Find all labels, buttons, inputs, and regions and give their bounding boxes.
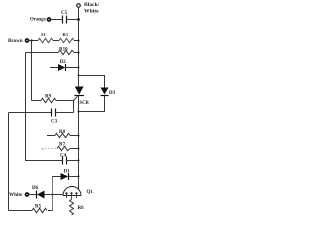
svg-text:R8: R8 — [59, 130, 66, 135]
wire D1 anode lead — [52, 176, 61, 178]
svg-text:R1: R1 — [63, 32, 69, 37]
wire brown to rail A junction — [29, 40, 38, 42]
wire orange to C5 — [51, 19, 63, 21]
svg-text:R6: R6 — [78, 206, 85, 211]
svg-text:S1: S1 — [41, 32, 47, 37]
pin 1 — [65, 192, 67, 194]
svg-text:Q1: Q1 — [87, 190, 94, 195]
wire R9 to gate node — [56, 100, 74, 102]
wire S1 to R1 — [53, 40, 59, 42]
svg-text:←: ← — [41, 146, 45, 151]
node junction D6/vertical — [52, 194, 54, 196]
wire R8 stub — [47, 135, 55, 137]
node Orange terminal — [48, 18, 51, 21]
node junction D2/rail — [78, 67, 80, 69]
svg-text:R5: R5 — [35, 205, 42, 210]
svg-text:R9: R9 — [45, 95, 52, 100]
svg-text:SCR: SCR — [80, 101, 90, 106]
resistor R6 vertical — [70, 200, 74, 216]
node Black/White terminal — [77, 4, 81, 8]
node junction D3 bottom/rail — [78, 111, 80, 113]
wire C4 to right rail — [67, 160, 79, 162]
diode D1 — [61, 173, 69, 180]
wire rail L vertical — [8, 113, 10, 211]
wire C4 row from rail B — [25, 160, 63, 162]
resistor R9 — [41, 98, 56, 102]
wire R10 to right rail — [74, 52, 79, 54]
wire R1 to right rail — [74, 40, 79, 42]
resistor R7 — [57, 146, 70, 150]
node junction R7/rail — [78, 148, 80, 150]
svg-text:D2: D2 — [60, 60, 67, 65]
node junction C5/rail — [77, 18, 80, 21]
wire node vertical x52 — [52, 177, 54, 211]
wire R10 row left — [26, 52, 59, 54]
node junction R10/rail — [78, 52, 80, 54]
wire D2 to right rail — [66, 67, 79, 69]
wire D6 to node vertical — [45, 194, 53, 196]
SCR thyristor — [75, 87, 84, 95]
wire R7 to right rail — [70, 148, 79, 150]
wire gate vertical — [73, 101, 75, 113]
svg-text:White: White — [84, 9, 99, 15]
pin 3 — [75, 192, 77, 194]
wire D3 branch bottom — [79, 96, 105, 112]
transistor Q1 package dome — [63, 187, 81, 196]
wire R9 corner from rail A — [32, 100, 42, 102]
wire D3 branch top — [79, 76, 105, 88]
wire C5 to right rail — [67, 19, 79, 21]
diode D6 — [36, 191, 38, 199]
diode D2 — [58, 64, 65, 71]
svg-text:C3: C3 — [51, 120, 58, 125]
wire rail A vertical — [31, 41, 33, 101]
svg-text:R7: R7 — [59, 143, 66, 148]
wire D6 node to transistor — [53, 194, 64, 196]
wire R5 row from rail L — [9, 210, 33, 212]
node junction brown/rail A — [30, 39, 32, 41]
node junction R8/rail — [78, 135, 80, 137]
resistor R10 — [58, 50, 74, 54]
wire D2 anode stub — [50, 67, 58, 69]
wire D1 to right rail — [69, 176, 79, 178]
pin 2 — [70, 192, 72, 194]
wire R5 to node vertical — [48, 210, 53, 212]
resistor R8 — [55, 133, 70, 137]
svg-text:D6: D6 — [32, 186, 39, 191]
resistor R5 — [32, 208, 47, 212]
svg-text:C4: C4 — [60, 153, 67, 158]
wire right rail upper (anode side) — [78, 8, 80, 87]
wire R8 to right rail — [70, 135, 79, 137]
wire rail B vertical — [25, 53, 27, 161]
node junction D3 top/rail — [78, 75, 80, 77]
node Brown terminal — [26, 39, 29, 42]
svg-text:Black/: Black/ — [84, 2, 100, 8]
resistor S1 — [38, 38, 53, 42]
node junction D1/rail — [78, 176, 80, 178]
wire right rail lower (cathode side) — [78, 96, 80, 190]
svg-text:White: White — [9, 192, 23, 198]
wire C3 row left from rail L — [9, 112, 52, 114]
svg-text:Orange: Orange — [30, 17, 47, 22]
svg-text:R10: R10 — [59, 48, 68, 53]
capacitor C3 — [52, 109, 56, 117]
node White terminal — [26, 193, 29, 196]
svg-text:C5: C5 — [61, 11, 68, 16]
wire C3 to gate vertical — [56, 112, 74, 114]
capacitor C4 — [63, 157, 67, 165]
resistor R1 — [59, 38, 74, 42]
svg-text:D1: D1 — [64, 170, 71, 175]
wire SCR gate diagonal — [74, 96, 78, 100]
node junction R1/rail — [78, 40, 80, 42]
capacitor C5 — [63, 16, 67, 24]
svg-text:Brown: Brown — [8, 38, 23, 44]
node junction C4/rail — [78, 160, 80, 162]
diode D3 — [101, 88, 109, 95]
wire white to D6 — [29, 194, 37, 196]
wire R7 faint dashed lead — [41, 148, 57, 150]
svg-text:D3: D3 — [109, 91, 116, 96]
